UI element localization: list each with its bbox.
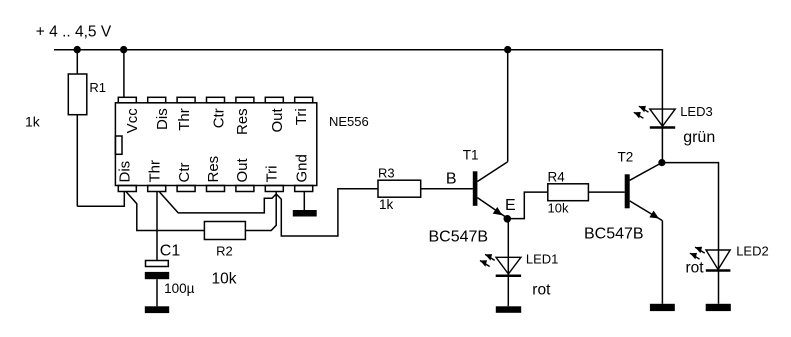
wire R3 to T1 base xyxy=(421,188,473,190)
pin Vcc (top 1) xyxy=(118,97,136,103)
LED D1 cathode bar xyxy=(496,275,521,278)
svg-text:Thr: Thr xyxy=(176,108,193,131)
pin Thr (top 3) xyxy=(177,97,195,103)
svg-text:rot: rot xyxy=(686,260,705,277)
capacitor C1 xyxy=(146,261,169,267)
svg-text:Out: Out xyxy=(269,107,286,132)
svg-text:R1: R1 xyxy=(89,80,106,95)
svg-text:LED1: LED1 xyxy=(526,251,559,266)
LED D2 arrows xyxy=(690,247,705,260)
wire T2 collector node to LED2 xyxy=(662,163,719,304)
pin Gnd (bottom 7) xyxy=(295,186,313,192)
LED D2 triangle xyxy=(706,250,730,270)
svg-text:grün: grün xyxy=(683,129,715,146)
ground (LED2) xyxy=(706,304,731,311)
wire Tri pin to R3 xyxy=(276,189,378,236)
svg-text:R4: R4 xyxy=(548,169,566,184)
svg-text:BC547B: BC547B xyxy=(429,229,489,246)
wire rail to Vcc pin xyxy=(123,50,125,98)
ground (IC Gnd) xyxy=(293,210,317,217)
svg-text:rot: rot xyxy=(532,281,551,298)
T1 emitter xyxy=(477,198,508,219)
wire C1 to ground xyxy=(156,279,158,306)
svg-text:R2: R2 xyxy=(216,243,233,258)
wire Thr pin down to C1 xyxy=(156,192,158,261)
svg-text:BC547B: BC547B xyxy=(584,226,644,243)
svg-text:10k: 10k xyxy=(212,271,237,288)
svg-text:1k: 1k xyxy=(25,114,41,130)
svg-text:100µ: 100µ xyxy=(164,281,195,296)
wire E to LED1 xyxy=(507,219,509,307)
svg-text:B: B xyxy=(446,171,457,188)
node T2 collector junction dot xyxy=(658,159,665,166)
LED D1 arrows xyxy=(480,254,495,267)
svg-text:Thr: Thr xyxy=(147,160,164,183)
resistor R2 xyxy=(204,222,245,240)
LED D3 triangle xyxy=(650,109,675,126)
pin Dis (top 2) xyxy=(148,97,166,103)
svg-text:R3: R3 xyxy=(378,166,395,181)
IC notch xyxy=(115,136,122,154)
wire R1 bottom down xyxy=(76,115,78,207)
svg-text:Res: Res xyxy=(234,108,251,135)
T2 emitter xyxy=(630,201,663,221)
resistor R4 xyxy=(548,184,589,201)
pin Tri (bottom 6) xyxy=(265,186,283,192)
svg-text:Tri: Tri xyxy=(293,108,310,125)
wire E to R4 xyxy=(508,192,548,219)
pin Tri (top 7) xyxy=(295,97,313,103)
wire Gnd pin down xyxy=(303,192,305,211)
svg-text:Dis: Dis xyxy=(154,108,171,130)
pin Ctr (top 4) xyxy=(207,97,225,103)
svg-text:T1: T1 xyxy=(463,148,479,163)
ground (T2 emitter) xyxy=(650,304,675,311)
resistor R3 xyxy=(378,180,421,197)
pin Res (bottom 4) xyxy=(207,186,225,192)
pin Dis (bottom 1) xyxy=(118,186,136,192)
svg-text:E: E xyxy=(505,197,516,214)
T1 collector xyxy=(477,162,507,182)
node E junction dot xyxy=(504,215,512,223)
pin Ctr (bottom 3) xyxy=(177,186,195,192)
pin Thr (bottom 2) xyxy=(148,186,166,192)
wire R2 right to Tri pin xyxy=(245,192,276,231)
svg-text:Dis: Dis xyxy=(116,161,133,183)
svg-text:NE556: NE556 xyxy=(329,114,369,129)
svg-text:+ 4 .. 4,5 V: + 4 .. 4,5 V xyxy=(36,23,112,40)
LED D1 triangle xyxy=(496,257,521,274)
wire power rail xyxy=(54,50,662,163)
pin Out (bottom 5) xyxy=(236,186,254,192)
node junction dot rail/Vcc xyxy=(120,46,127,53)
node junction dot rail/T1 collector xyxy=(504,46,511,53)
wire R4 to T2 base xyxy=(588,191,624,193)
svg-text:Tri: Tri xyxy=(263,166,280,183)
IC U1 NE556 body xyxy=(115,103,316,186)
svg-text:Res: Res xyxy=(205,156,222,183)
svg-text:LED2: LED2 xyxy=(736,243,769,258)
LED D2 cathode bar xyxy=(706,269,731,272)
svg-text:Ctr: Ctr xyxy=(176,163,193,183)
wire T2 emitter to ground xyxy=(661,221,663,304)
T2 collector xyxy=(630,163,662,181)
svg-text:Out: Out xyxy=(234,157,251,182)
svg-text:Gnd: Gnd xyxy=(294,154,311,182)
svg-text:Ctr: Ctr xyxy=(211,108,228,128)
resistor R1 xyxy=(68,74,87,115)
svg-text:10k: 10k xyxy=(548,201,569,216)
svg-text:T2: T2 xyxy=(618,150,634,165)
LED D3 arrows xyxy=(634,106,649,119)
svg-text:1k: 1k xyxy=(379,197,394,212)
LED D3 cathode bar xyxy=(650,126,675,129)
ground (LED1) xyxy=(496,306,521,313)
pin Res (top 5) xyxy=(236,97,254,103)
node junction dot rail/R1 xyxy=(74,46,81,53)
wire rail to R1 top xyxy=(76,50,78,74)
svg-text:LED3: LED3 xyxy=(680,104,713,119)
transistor T2 base bar xyxy=(625,174,630,208)
wire Thr pin to Tri pin xyxy=(160,192,277,213)
wire R1 to Dis pin xyxy=(77,192,124,207)
transistor T1 base bar xyxy=(473,171,478,206)
ground (C1) xyxy=(145,306,169,313)
svg-text:C1: C1 xyxy=(160,242,181,259)
svg-text:Vcc: Vcc xyxy=(124,108,141,134)
wire Dis pin to R2 left xyxy=(126,192,204,231)
pin Out (top 6) xyxy=(265,97,283,103)
